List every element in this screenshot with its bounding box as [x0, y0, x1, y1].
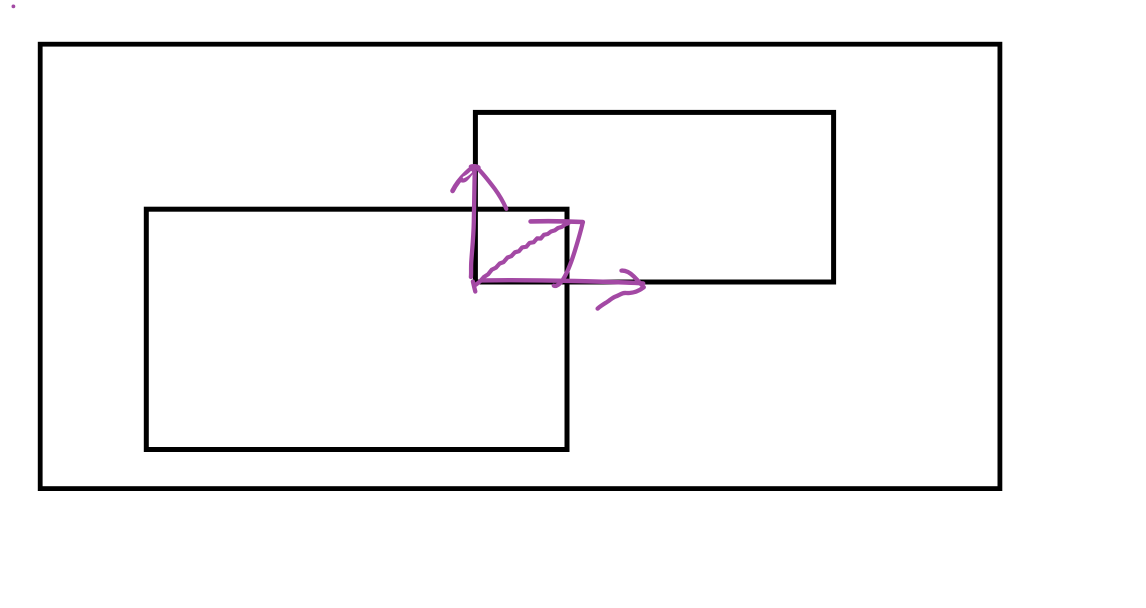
up-arrow head tip blob — [471, 166, 479, 167]
right-arrow shaft (horizontal purple stroke) — [482, 280, 643, 283]
up-arrow head left flank (outbound stroke of loop) — [453, 166, 475, 190]
wavy diagonal stroke from corner to the seven mark — [476, 223, 569, 285]
up-arrow shaft tail hook below corner — [473, 282, 475, 292]
purple dot top-left — [12, 5, 16, 9]
up-arrow head right flank — [478, 169, 506, 209]
up-arrow head left flank (return stroke of loop) — [462, 167, 475, 180]
right-arrow head upper flank — [622, 271, 644, 288]
outer rectangle — [40, 44, 1000, 488]
white sliver inside the doubled left flank loop — [464, 172, 472, 177]
right-arrow head lower flank (wavy) — [598, 288, 644, 309]
up-arrow shaft (vertical purple stroke) — [471, 171, 475, 277]
left inner rectangle — [146, 209, 567, 449]
right inner rectangle — [475, 112, 833, 282]
seven mark diagonal stroke — [554, 222, 583, 286]
seven mark horizontal stroke — [531, 219, 583, 224]
